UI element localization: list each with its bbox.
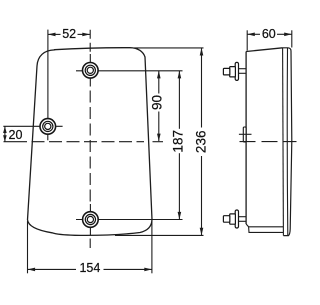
hole left: outer ring bbox=[40, 119, 56, 135]
back tab on mounting face bbox=[243, 127, 246, 142]
dim 60 arrow right bbox=[284, 33, 292, 37]
front view lamp outline bbox=[28, 48, 153, 236]
dim 154 line bbox=[28, 268, 77, 270]
dim 154 arrow right bbox=[144, 268, 152, 272]
hole bottom: middle ring bbox=[85, 214, 95, 224]
hole bottom crosshair stubs bbox=[76, 204, 90, 235]
bottom stud nut bbox=[230, 214, 236, 224]
dim 154 extension right bbox=[151, 221, 153, 274]
hole top: middle ring bbox=[85, 65, 95, 75]
side view lens inner line bbox=[286, 48, 289, 236]
bottom stud shaft bbox=[239, 216, 247, 218]
side view bottom foot bbox=[246, 224, 283, 232]
svg-text:236: 236 bbox=[194, 131, 209, 154]
centerline horizontal (front view) bbox=[4, 141, 28, 143]
top stud flange bbox=[235, 62, 238, 80]
hole bottom: inner ring bbox=[87, 216, 93, 222]
hole top: inner ring bbox=[87, 67, 93, 73]
side view housing/lens separation line bbox=[282, 48, 285, 236]
hole left: middle ring bbox=[43, 121, 53, 131]
bottom stud flange bbox=[235, 210, 238, 228]
dim 236 line bbox=[201, 48, 203, 128]
extension top edge to 236 dim bbox=[134, 47, 204, 49]
dim 90 line bbox=[158, 71, 160, 94]
dim 90 arrow bottom bbox=[157, 134, 161, 142]
dim 60 line bbox=[247, 33, 260, 35]
dim 154 arrow left bbox=[28, 268, 36, 272]
svg-text:90: 90 bbox=[150, 95, 165, 110]
dim 52 arrow left bbox=[48, 33, 56, 37]
dim 60 extension left bbox=[246, 30, 248, 50]
dim 187 arrow bottom bbox=[178, 212, 182, 220]
dim 187 arrow top bbox=[178, 71, 182, 79]
dim 20 line with arrows bbox=[4, 126, 6, 142]
svg-text:154: 154 bbox=[79, 261, 100, 275]
side view top edge bbox=[246, 48, 283, 52]
dim 90 arrow top bbox=[157, 71, 161, 79]
extension bottom to 236 dim bbox=[115, 234, 204, 236]
extension from top hole to right bbox=[99, 70, 183, 72]
top stud tip bbox=[223, 68, 229, 75]
dim 60 extension right bbox=[291, 30, 293, 47]
side view lens top and outer edge bbox=[283, 48, 292, 236]
centerline vertical (front view) bbox=[89, 30, 91, 54]
dim 187 line bbox=[178, 71, 180, 129]
dim 52 arrow right bbox=[82, 33, 90, 37]
dim 154 extension left bbox=[27, 221, 29, 273]
hole left: inner ring bbox=[45, 123, 51, 129]
dim 52 line bbox=[48, 33, 61, 35]
hole top: outer ring bbox=[83, 63, 99, 79]
extension from bottom hole to right bbox=[99, 219, 183, 221]
hole bottom: outer ring bbox=[83, 212, 99, 228]
dim 236 arrow top bbox=[200, 48, 204, 56]
svg-text:52: 52 bbox=[62, 27, 76, 41]
dim 52 extension left bbox=[47, 30, 49, 118]
dim 236 arrow bottom bbox=[200, 228, 204, 236]
hole left crosshair stubs bbox=[3, 126, 62, 140]
side view mounting face bbox=[245, 52, 247, 225]
back tab tick bbox=[239, 133, 252, 135]
dim 60 arrow left bbox=[247, 33, 255, 37]
svg-text:20: 20 bbox=[9, 128, 23, 142]
svg-text:187: 187 bbox=[170, 130, 185, 153]
svg-text:60: 60 bbox=[262, 27, 276, 41]
bottom stud tip bbox=[223, 216, 229, 223]
top stud nut bbox=[230, 67, 236, 77]
hole top crosshair stubs bbox=[76, 54, 90, 87]
side view centerline bbox=[240, 141, 297, 143]
top stud shaft bbox=[239, 68, 247, 70]
